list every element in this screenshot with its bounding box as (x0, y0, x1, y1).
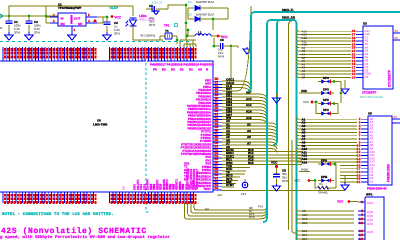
svg-text:R1: R1 (189, 68, 193, 72)
diode pack DP3 (318, 92, 334, 94)
bus DB(0..15) horizontal (263, 20, 293, 222)
svg-text:P5: P5 (153, 68, 157, 72)
svg-text:D4: D4 (370, 180, 374, 184)
capacitor C1 (8, 16, 10, 21)
regulator U1 body (58, 13, 86, 26)
wire U2 bottom frame (218, 191, 345, 196)
U1 pin stubs (50, 16, 58, 18)
bus E vertical right (293, 20, 297, 240)
svg-text:LMG-7380: LMG-7380 (93, 123, 108, 127)
svg-text:DP4: DP4 (323, 76, 329, 80)
svg-text:NOTE1 : CONNECTIONS TO THE LCD: NOTE1 : CONNECTIONS TO THE LCD ARE OMITT… (2, 212, 114, 217)
wire bus to U3 (297, 29, 352, 77)
wire U1 input (46, 16, 50, 18)
svg-text:A12: A12 (246, 103, 252, 107)
svg-text:28: 28 (395, 29, 399, 33)
wire olive vertical riser (288, 25, 290, 230)
diode pack DP2 (318, 113, 334, 115)
U5 left pin stubs (361, 119, 368, 182)
wire K2 long (205, 210, 290, 212)
svg-text:D2: D2 (188, 13, 192, 17)
diode pack DPB (318, 180, 334, 182)
svg-text:WDB: WDB (301, 168, 308, 172)
wire group U2 bottom to bus (184, 203, 266, 219)
svg-text:U3: U3 (363, 22, 367, 26)
LED LED1 (131, 5, 133, 7)
svg-text:EN: EN (61, 22, 65, 26)
svg-text:14: 14 (352, 75, 356, 79)
svg-text:+3.3V: +3.3V (109, 6, 119, 10)
svg-text:NOT INSTALLED: NOT INSTALLED (360, 95, 384, 99)
top pin row stubs and numbers (3, 47, 194, 61)
bottom pin row stubs and numbers (3, 192, 194, 203)
svg-text:B: B (0, 26, 2, 30)
ground for C4 (103, 32, 112, 40)
diode pack DP5 (318, 103, 334, 105)
bus DB(0..7) horizontal (248, 12, 400, 91)
svg-text:TEST: TEST (203, 187, 211, 191)
ground for C8 (273, 184, 281, 191)
red marker (93, 19, 97, 23)
svg-text:DPA: DPA (321, 159, 328, 163)
VCC power dot (111, 15, 114, 18)
svg-text:20%: 20% (114, 32, 120, 36)
svg-text:A16: A16 (246, 116, 252, 120)
svg-text:A1: A1 (247, 122, 251, 126)
svg-text:P22: P22 (181, 183, 185, 189)
LCD module U9 body (0, 61, 146, 192)
ground cluster right (341, 182, 349, 190)
diode pack DPA (318, 163, 334, 165)
svg-text:A5: A5 (247, 135, 251, 139)
svg-text:A7: A7 (247, 142, 251, 146)
svg-text:42S (Nonvolatile) SCHEMATIC: 42S (Nonvolatile) SCHEMATIC (1, 227, 147, 236)
svg-text:21: 21 (357, 180, 361, 184)
svg-text:TPS76833QPWP: TPS76833QPWP (58, 6, 81, 10)
svg-text:A0: A0 (302, 76, 306, 80)
svg-text:DQ1: DQ1 (367, 201, 374, 205)
svg-text:VCC: VCC (115, 16, 122, 20)
svg-text:RFR: RFR (282, 179, 289, 183)
VCC dot L1 (217, 35, 220, 38)
svg-text:R15: R15 (248, 161, 254, 165)
svg-text:DQ6: DQ6 (367, 230, 374, 234)
wire C6 right (231, 46, 238, 80)
svg-text:A14: A14 (246, 110, 252, 114)
wire LED to osc (133, 39, 163, 41)
U3 left pin stubs wires (356, 31, 363, 77)
IC U5 body (368, 116, 392, 185)
svg-text:IN: IN (61, 17, 64, 21)
svg-text:STBY: STBY (226, 183, 234, 187)
svg-text:BAW56T2LM: BAW56T2LM (196, 0, 214, 4)
svg-text:49.152MHz: 49.152MHz (140, 34, 156, 38)
svg-text:VCC: VCC (303, 100, 310, 104)
svg-text:27C256TF: 27C256TF (388, 69, 392, 87)
U2 right pin stubs (213, 81, 222, 190)
wire group long signals (222, 152, 302, 165)
wire group to bus C (222, 123, 277, 153)
svg-text:FM28C256: FM28C256 (387, 164, 391, 182)
svg-text:Y1: Y1 (165, 29, 169, 33)
ground for C9 (153, 10, 159, 15)
svg-text:B10: B10 (302, 221, 308, 225)
WP1 left pins (358, 202, 365, 239)
svg-text:DQ5: DQ5 (367, 222, 374, 226)
wire X1B (299, 92, 318, 94)
svg-text:X1B: X1B (301, 89, 308, 93)
svg-text:DP5: DP5 (323, 98, 329, 102)
wire diode loop (188, 8, 228, 36)
wire WDB (299, 171, 310, 173)
svg-text:E4: E4 (162, 68, 166, 72)
ground right of C6 (243, 47, 251, 54)
diode pack DP4 (318, 81, 334, 83)
capacitor C4 (106, 17, 108, 22)
svg-text:FM28-2560-90: FM28-2560-90 (367, 187, 387, 191)
svg-text:DB(0..15): DB(0..15) (282, 16, 295, 20)
svg-text:B8: B8 (249, 206, 253, 210)
IC U3 body (363, 26, 393, 89)
svg-text:E2: E2 (180, 68, 184, 72)
svg-text:20: 20 (395, 36, 399, 40)
bus C vertical (273, 20, 281, 145)
svg-text:11: 11 (359, 221, 363, 226)
svg-text:SPARE: SPARE (318, 191, 328, 195)
wire group to bus B (222, 94, 267, 124)
node +3.3V junction (106, 16, 109, 19)
capacitor C2 (28, 16, 30, 21)
svg-text:20%: 20% (34, 31, 40, 35)
ground for C2 (25, 32, 34, 40)
svg-text:6.24.76: 6.24.76 (152, 1, 162, 5)
svg-text:DP2: DP2 (323, 108, 329, 112)
dashed note line horizontal (0, 41, 190, 43)
wire U1 output to VCC node (97, 16, 107, 18)
svg-text:R9: R9 (184, 178, 188, 182)
ground for U1 (68, 32, 77, 40)
svg-text:RFR: RFR (218, 55, 225, 59)
svg-text:U5: U5 (368, 112, 372, 116)
test point P15 (244, 179, 246, 182)
svg-text:VCC: VCC (337, 200, 344, 204)
wire olive vertical riser 2 (291, 140, 293, 230)
svg-text:K2: K2 (205, 207, 209, 211)
svg-text:RFR: RFR (149, 23, 156, 27)
MCU U2 body (147, 61, 213, 192)
svg-text:OUT: OUT (74, 17, 81, 21)
svg-text:20%: 20% (14, 31, 20, 35)
svg-text:WP1: WP1 (366, 193, 373, 197)
off-page connector arrow (0, 14, 3, 18)
svg-text:DB(0..7): DB(0..7) (282, 8, 293, 12)
node junction dots on rail (8, 15, 11, 18)
svg-text:VCC: VCC (294, 179, 301, 183)
svg-text:A14: A14 (302, 160, 308, 164)
wire bus to WP1 (297, 209, 355, 239)
svg-text:VCC: VCC (271, 161, 278, 165)
svg-text:1: 1 (361, 200, 363, 205)
wire group to bus DB upper (222, 6, 251, 94)
node dots oscillator (185, 4, 188, 7)
svg-text:R3: R3 (171, 68, 175, 72)
wire bus to U5 (297, 117, 358, 182)
svg-text:D3: D3 (365, 75, 369, 79)
capacitor C8 (276, 168, 278, 175)
wire to ground near U5 (344, 176, 346, 182)
svg-text:A3: A3 (247, 129, 251, 133)
IC WP1 body (365, 197, 384, 240)
svg-text:BAW56T2LM: BAW56T2LM (196, 13, 214, 17)
svg-text:DP3: DP3 (323, 87, 329, 91)
svg-text:g speed, with 32kbyte Ferroele: g speed, with 32kbyte Ferroelectric NV-R… (0, 235, 171, 240)
svg-text:D1: D1 (188, 0, 192, 4)
U5 right pins (392, 119, 400, 123)
svg-text:C6: C6 (220, 38, 224, 42)
svg-text:P15: P15 (241, 192, 247, 196)
svg-text:P14: P14 (258, 205, 264, 209)
svg-text:DPB: DPB (321, 175, 328, 179)
ground on X1B branch (276, 93, 278, 97)
wire top +5V rail (0, 6, 131, 16)
dashed note line vertical LCD (146, 63, 150, 212)
U3 right pins (393, 33, 400, 40)
svg-text:28: 28 (394, 115, 398, 119)
svg-text:27C256TF: 27C256TF (362, 91, 376, 95)
wire group short lower (222, 168, 250, 187)
svg-text:A10: A10 (246, 97, 252, 101)
svg-text:TP1: TP1 (164, 24, 170, 28)
svg-text:P40/SEG17 P41/SEG18 P42/SEG19: P40/SEG17 P41/SEG18 P42/SEG19 P43/SG20 (150, 63, 214, 67)
svg-text:A0: A0 (198, 68, 202, 72)
ground for C1 (5, 32, 14, 40)
wire oscillator to U2 pins (160, 5, 196, 47)
ground near U3 (344, 80, 346, 88)
